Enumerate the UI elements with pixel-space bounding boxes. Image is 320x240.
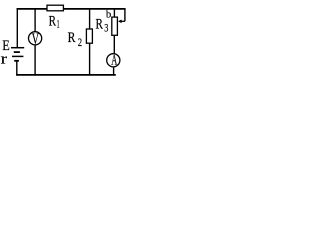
wire voltmeter branch upper [34,9,36,32]
battery E,r [11,48,24,61]
ammeter A [107,54,120,67]
voltmeter V [28,32,41,45]
svg-text:1: 1 [57,18,60,30]
wire left rail upper [16,8,18,47]
rheostat R3 [112,17,118,35]
svg-text:R: R [96,17,104,33]
svg-text:A: A [111,52,117,68]
svg-text:R: R [68,30,76,46]
wire left rail lower [16,61,18,76]
svg-text:3: 3 [104,22,108,34]
wire top rail [17,8,126,10]
wire voltmeter branch lower [34,45,36,75]
wire R2 branch upper [89,9,91,29]
wiper arrow of R3 [121,20,125,22]
wire bottom rail [16,74,116,76]
wire R3 to ammeter [113,36,115,54]
svg-text:R: R [49,14,57,30]
wire R2 branch lower [89,44,91,76]
resistor R1 [47,5,63,11]
svg-text:b: b [106,8,111,20]
resistor R2 [86,29,92,43]
svg-text:r: r [1,52,8,68]
svg-text:2: 2 [78,37,82,49]
wire right rail [124,9,126,21]
wire R3 stub [113,9,115,17]
wire ammeter to bottom rail [113,67,115,75]
